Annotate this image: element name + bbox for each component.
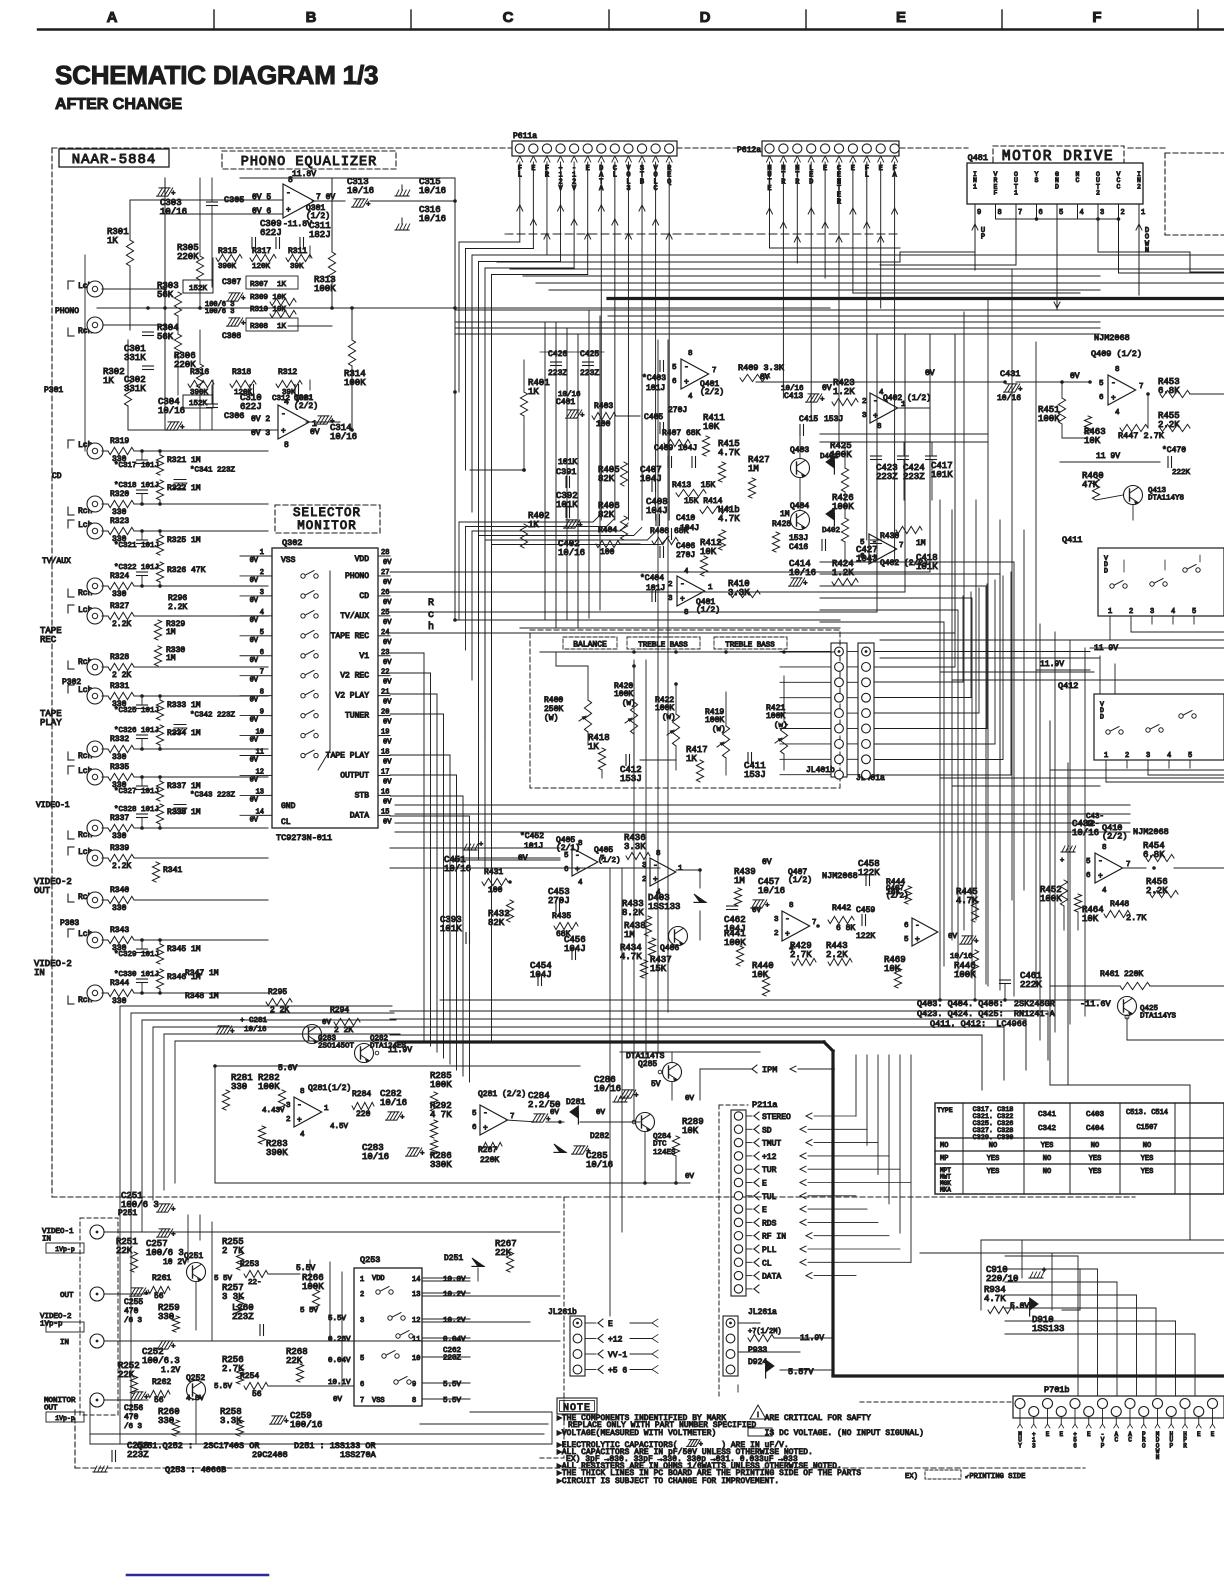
svg-text:VIDEO-1: VIDEO-1 <box>36 801 70 810</box>
svg-text:1K: 1K <box>107 236 118 246</box>
svg-text:122K: 122K <box>856 932 875 941</box>
svg-text:C312 102J: C312 102J <box>272 395 313 403</box>
svg-text:0V: 0V <box>383 559 392 567</box>
svg-text:(1/2): (1/2) <box>598 857 621 865</box>
svg-text:0.04V: 0.04V <box>328 1357 351 1365</box>
svg-text:20: 20 <box>381 709 389 717</box>
svg-text:1M: 1M <box>916 539 926 548</box>
svg-text:0V: 0V <box>760 373 770 382</box>
svg-text:0V: 0V <box>250 597 259 605</box>
svg-text:-: - <box>575 852 580 861</box>
svg-text:152K: 152K <box>189 400 208 408</box>
svg-text:-: - <box>286 189 291 198</box>
svg-text:-11.8V: -11.8V <box>283 220 312 229</box>
svg-text:+: + <box>586 1148 590 1156</box>
svg-text:3: 3 <box>1150 608 1154 616</box>
svg-text:Q253 : 4066B: Q253 : 4066B <box>165 1465 226 1475</box>
svg-text:P611a: P611a <box>513 132 537 141</box>
pin E of P612a <box>878 156 881 162</box>
wire nest from JL401a <box>874 651 1090 653</box>
svg-text:R284: R284 <box>352 1090 371 1099</box>
svg-text:R343: R343 <box>110 926 129 935</box>
svg-text:P933: P933 <box>748 1346 767 1355</box>
pin 20 of Q302 <box>378 715 390 717</box>
svg-text:22: 22 <box>381 669 389 677</box>
pin TMUT of P211a <box>734 1138 742 1146</box>
svg-text:YES: YES <box>1089 1168 1102 1176</box>
svg-text:-: - <box>873 397 878 406</box>
pin TUL of P211a <box>734 1192 742 1200</box>
svg-text:11.9V: 11.9V <box>1040 660 1064 669</box>
svg-text:82K: 82K <box>598 474 615 484</box>
svg-text:R435: R435 <box>552 912 571 921</box>
svg-text:10/16: 10/16 <box>362 1152 389 1162</box>
wire 11.8V rail <box>240 177 455 179</box>
svg-text:56: 56 <box>154 1396 164 1405</box>
wire video-to-JL261 rails <box>470 1411 552 1413</box>
wire from P611a pin VOLC <box>653 219 656 225</box>
svg-text:DTA114YS: DTA114YS <box>1140 1012 1177 1020</box>
svg-text:JL261a: JL261a <box>748 1308 777 1317</box>
svg-text:5: 5 <box>904 936 909 944</box>
svg-text:R326 47K: R326 47K <box>167 566 206 575</box>
svg-text:9: 9 <box>412 1381 416 1389</box>
pin 11 of Q302 <box>260 755 272 757</box>
svg-text:10.0V: 10.0V <box>443 1276 466 1284</box>
pin E of P701b <box>1043 1399 1053 1409</box>
svg-text:0V: 0V <box>250 577 259 585</box>
svg-text:622J: 622J <box>240 402 262 412</box>
pin 5 of Q411 <box>1193 616 1195 624</box>
svg-text:1: 1 <box>360 1276 364 1284</box>
svg-text:5: 5 <box>564 852 569 860</box>
svg-text:10/16: 10/16 <box>330 432 357 442</box>
svg-text:2: 2 <box>1129 608 1133 616</box>
svg-text:4: 4 <box>1171 608 1175 616</box>
svg-text:+: + <box>180 424 184 432</box>
svg-text:104J: 104J <box>530 970 552 980</box>
pin 1 of Q411 <box>1109 616 1111 624</box>
pin 26 of Q302 <box>378 595 390 597</box>
wire from P611a pin REQ <box>666 233 669 239</box>
svg-text:153J: 153J <box>824 415 843 424</box>
wire from P611a pin -12V <box>571 219 574 225</box>
wire staircase to P701b <box>1005 1255 1078 1257</box>
pin MTR of P612a <box>780 156 783 162</box>
svg-text:0V: 0V <box>310 428 320 437</box>
pin 1 of Q302 <box>260 555 272 557</box>
pin STEREO of P211a <box>734 1112 742 1120</box>
svg-text:C307: C307 <box>222 278 241 287</box>
wire right vertical bundle <box>939 500 941 960</box>
svg-text:0V: 0V <box>383 798 392 806</box>
svg-text:R339: R339 <box>110 844 129 853</box>
svg-text:(2/2): (2/2) <box>1102 831 1128 841</box>
svg-text:3: 3 <box>1100 209 1104 217</box>
svg-text:2: 2 <box>862 398 867 406</box>
svg-text:1: 1 <box>324 1105 329 1113</box>
svg-text:R404: R404 <box>598 526 617 535</box>
wire right-mid rails <box>395 804 1130 806</box>
svg-text:C401: C401 <box>556 398 575 407</box>
svg-text:R309 10K: R309 10K <box>250 294 287 302</box>
wire thick trace vertical <box>831 1051 834 1375</box>
op-amp Q402 (2/2) <box>869 534 897 564</box>
svg-text:+: + <box>785 930 790 939</box>
svg-text:0V: 0V <box>250 757 259 765</box>
wire from Q302 pin at y=572 <box>390 571 930 573</box>
svg-text:DATA: DATA <box>762 1273 781 1282</box>
svg-text:C306: C306 <box>224 411 244 421</box>
diode D910 <box>1030 1298 1038 1310</box>
capacitor C461 <box>1000 979 1011 981</box>
svg-text:+: + <box>1042 1267 1046 1275</box>
svg-text:IPM: IPM <box>762 1065 777 1075</box>
svg-text:+: + <box>171 190 175 198</box>
pin 17 of Q302 <box>378 774 390 776</box>
svg-text:+12: +12 <box>762 1153 777 1162</box>
wire from P611a pin E <box>585 233 588 239</box>
transistor Q406 <box>669 927 688 946</box>
svg-text:4.7K: 4.7K <box>718 448 740 458</box>
svg-text:R295: R295 <box>268 988 287 997</box>
wire Q481 internal bus <box>996 218 1119 220</box>
svg-text:P251: P251 <box>118 1209 137 1218</box>
svg-text:10/16: 10/16 <box>380 1098 407 1108</box>
svg-text:N: N <box>1156 1454 1160 1461</box>
pin +56 of P701b <box>1070 1399 1080 1409</box>
svg-text:NO: NO <box>1143 1142 1151 1150</box>
pin 14 of Q302 <box>260 814 272 816</box>
pin RDS of P211a <box>734 1218 742 1226</box>
svg-text:101K: 101K <box>931 470 953 480</box>
svg-text:10: 10 <box>412 1355 420 1363</box>
svg-text:6: 6 <box>904 922 909 930</box>
svg-text:26: 26 <box>381 589 389 597</box>
pin 27 of Q302 <box>378 575 390 577</box>
wire from P612a pin MUTE <box>767 208 770 214</box>
wire bus thick printing-side trace <box>608 297 1224 300</box>
svg-text:R341: R341 <box>163 866 182 875</box>
svg-text:100K: 100K <box>724 938 746 948</box>
oval DC voltage symbol <box>748 1428 772 1436</box>
pin +12 of P211a <box>734 1152 742 1160</box>
svg-text:NO: NO <box>1043 1168 1051 1176</box>
svg-text:270J: 270J <box>548 896 570 906</box>
pin SD of P211a <box>734 1125 742 1133</box>
svg-text:+: + <box>241 295 245 303</box>
svg-text:R325 1M: R325 1M <box>167 536 201 545</box>
blue marker line <box>127 1574 268 1577</box>
pin VOLC of P611a <box>653 156 656 162</box>
svg-text:101K: 101K <box>440 924 462 934</box>
svg-text:RF IN: RF IN <box>762 1233 786 1242</box>
svg-text:0V: 0V <box>383 739 392 747</box>
pin E of P701b <box>1084 1407 1094 1417</box>
pin 2 of Q411 <box>1130 616 1132 624</box>
svg-text:1: 1 <box>1108 608 1112 616</box>
svg-text:5: 5 <box>472 1110 477 1118</box>
svg-text:0V: 0V <box>518 854 528 863</box>
svg-text:NO: NO <box>1043 1155 1051 1163</box>
wire cd group feeds <box>268 450 272 452</box>
svg-text:223Z: 223Z <box>580 369 599 378</box>
svg-text:+: + <box>653 876 658 885</box>
pin VOL3 of P611a <box>625 156 628 162</box>
svg-text:470: 470 <box>124 1413 139 1422</box>
svg-text:▶VOLTAGE(MEASURED WITH VOLTMET: ▶VOLTAGE(MEASURED WITH VOLTMETER) IS DC … <box>557 1430 924 1438</box>
svg-text:(W): (W) <box>544 714 558 723</box>
svg-text:C341: C341 <box>1038 1111 1057 1119</box>
svg-text:/6 3: /6 3 <box>124 1317 143 1325</box>
pin 3 of Q302 <box>260 595 272 597</box>
svg-text:+: + <box>284 1418 288 1426</box>
svg-text:R331: R331 <box>110 682 129 691</box>
svg-text:-: - <box>1111 379 1116 388</box>
svg-text:1K: 1K <box>528 387 539 397</box>
svg-text:8: 8 <box>288 176 293 185</box>
wire bus h5 <box>523 275 1100 277</box>
label SELECTOR MONITOR <box>275 505 380 533</box>
svg-text:10/16: 10/16 <box>586 1160 613 1170</box>
svg-text:D282: D282 <box>590 1132 609 1141</box>
svg-text:R448: R448 <box>1110 900 1129 909</box>
svg-text:1: 1 <box>1141 209 1145 217</box>
svg-text:P612a: P612a <box>737 146 761 155</box>
svg-text:B: B <box>306 9 317 26</box>
svg-text:R335: R335 <box>110 763 129 772</box>
svg-text:+: + <box>546 1116 550 1124</box>
wire thick trace corner <box>824 1042 833 1051</box>
pin 24 of Q302 <box>378 635 390 637</box>
svg-text:5: 5 <box>1086 858 1091 866</box>
wire bus h3 <box>497 261 900 263</box>
switches in Q412 <box>1106 730 1110 734</box>
svg-text:5: 5 <box>360 1355 364 1363</box>
svg-text:C415: C415 <box>799 415 818 424</box>
svg-text:19: 19 <box>381 729 389 737</box>
svg-text:-: - <box>915 922 920 931</box>
wire from Q302 pin at y=633 <box>390 632 955 634</box>
transistor Q283 <box>303 1025 322 1044</box>
svg-text:56: 56 <box>154 1292 164 1301</box>
pin 3 of Q412 <box>1147 760 1149 768</box>
svg-text:17: 17 <box>381 768 389 776</box>
svg-text:-: - <box>483 1109 488 1118</box>
svg-text:4.5V: 4.5V <box>330 1123 349 1131</box>
dashed box right edge <box>1164 153 1166 235</box>
svg-text:SD: SD <box>762 1126 772 1135</box>
svg-text:3: 3 <box>668 595 673 603</box>
svg-text:0V: 0V <box>383 699 392 707</box>
svg-text:330: 330 <box>112 997 127 1006</box>
svg-text:+: + <box>230 1028 234 1036</box>
pin DATA of P611a <box>598 156 601 162</box>
svg-text:R: R <box>428 598 434 609</box>
svg-text:IN: IN <box>60 1339 69 1347</box>
svg-text:R312: R312 <box>278 368 297 377</box>
svg-text:6 8K: 6 8K <box>836 924 855 933</box>
svg-text:(2/2): (2/2) <box>886 892 909 900</box>
svg-text:56: 56 <box>252 1390 262 1399</box>
svg-text:C416: C416 <box>789 543 808 552</box>
label PHONO EQUALIZER <box>222 151 396 169</box>
svg-text:5.5V: 5.5V <box>443 1381 462 1389</box>
svg-text:330: 330 <box>158 1416 174 1426</box>
wire Q403 links <box>799 430 801 458</box>
svg-text:h: h <box>428 621 434 633</box>
pin MDOWN of P701b <box>1153 1399 1163 1409</box>
svg-text:P211a: P211a <box>752 1100 778 1110</box>
capacitor C257 <box>158 1229 163 1237</box>
svg-text:10/16: 10/16 <box>758 886 785 896</box>
connector TAPE REC Lch <box>68 604 74 606</box>
svg-text:PHONO: PHONO <box>55 307 79 316</box>
wire bus h2 <box>483 254 1224 256</box>
svg-text:E: E <box>1087 1431 1091 1438</box>
svg-text:+: + <box>915 936 920 945</box>
svg-text:+12: +12 <box>608 1336 623 1345</box>
dashed frame top <box>52 147 512 149</box>
wire vertical bundle center <box>544 322 546 620</box>
svg-text:10/16: 10/16 <box>158 406 185 416</box>
pin FL of P611a <box>517 156 520 162</box>
svg-text:1SS133: 1SS133 <box>1032 1324 1064 1334</box>
svg-text:BALANCE: BALANCE <box>573 641 607 650</box>
svg-text:22K: 22K <box>118 1370 135 1380</box>
svg-text:Q405: Q405 <box>594 846 613 855</box>
pin -VP of P701b <box>1098 1399 1108 1409</box>
svg-text:2: 2 <box>774 930 779 938</box>
svg-text:VDD: VDD <box>355 555 370 564</box>
border frame <box>38 28 1224 30</box>
svg-text:!: ! <box>756 1412 760 1420</box>
svg-text:+: + <box>1111 394 1116 403</box>
svg-text:10/16: 10/16 <box>997 394 1021 403</box>
svg-text:*C341 223Z: *C341 223Z <box>190 467 236 475</box>
svg-text:100K: 100K <box>314 284 336 294</box>
svg-text:220K: 220K <box>177 252 199 262</box>
svg-text:6: 6 <box>1039 209 1043 217</box>
svg-text:+: + <box>420 1150 424 1158</box>
svg-text:5: 5 <box>1192 608 1196 616</box>
svg-text:S: S <box>1035 177 1039 184</box>
svg-text:R310 10K: R310 10K <box>250 306 287 314</box>
svg-text:331K: 331K <box>124 384 146 394</box>
svg-text:0V: 0V <box>752 907 762 915</box>
pin +12V of P611a <box>558 156 561 162</box>
svg-text:SCHEMATIC DIAGRAM 1/3: SCHEMATIC DIAGRAM 1/3 <box>55 60 378 90</box>
svg-text:5.5V: 5.5V <box>443 1397 462 1405</box>
wire bus h10 <box>455 327 1100 329</box>
svg-text:R254: R254 <box>240 1372 259 1381</box>
pin 4 of Q412 <box>1168 760 1170 768</box>
svg-text:*C343 223Z: *C343 223Z <box>190 792 236 800</box>
capacitor C402 <box>565 520 570 528</box>
svg-text:D402: D402 <box>822 527 840 535</box>
wire motor out1 <box>1015 219 1017 265</box>
svg-text:+ C281: + C281 <box>240 1017 268 1025</box>
wire Q410 wiring <box>1050 862 1095 864</box>
svg-text:4: 4 <box>1080 209 1084 217</box>
svg-text:C404: C404 <box>1086 1125 1105 1133</box>
svg-text:TV/AUX: TV/AUX <box>340 612 369 621</box>
svg-text:R413 15K: R413 15K <box>672 481 715 490</box>
wire from P611a pin CL <box>612 219 615 225</box>
svg-text:Y: Y <box>1018 1442 1022 1449</box>
svg-text:10K: 10K <box>1084 436 1101 446</box>
svg-text:+5 6: +5 6 <box>608 1367 627 1376</box>
svg-text:D281: D281 <box>566 1098 585 1107</box>
svg-text:8: 8 <box>1102 844 1107 852</box>
wire from P612a pin E <box>878 236 881 242</box>
svg-text:0V: 0V <box>383 639 392 647</box>
svg-text:0V: 0V <box>925 369 935 378</box>
wire from P611a pin DATA <box>598 205 601 211</box>
pin 28 of Q302 <box>378 555 390 557</box>
svg-text:10/16: 10/16 <box>347 186 374 196</box>
svg-text:AFTER CHANGE: AFTER CHANGE <box>55 96 182 113</box>
svg-text:8: 8 <box>789 902 794 910</box>
svg-text:330: 330 <box>112 904 127 913</box>
svg-text:CL: CL <box>762 1259 772 1268</box>
svg-text:+: + <box>297 1116 302 1125</box>
svg-text:1Vp-p: 1Vp-p <box>40 1320 63 1328</box>
wire verticals feeding Q411/Q412 <box>1039 624 1041 1040</box>
svg-text:Q252: Q252 <box>186 1374 205 1383</box>
svg-text:CD: CD <box>52 472 62 481</box>
svg-text:V2 PLAY: V2 PLAY <box>335 692 369 701</box>
svg-text:TMUT: TMUT <box>762 1140 781 1149</box>
svg-text:R262: R262 <box>152 1378 171 1387</box>
svg-text:5 5V: 5 5V <box>214 1275 233 1283</box>
svg-text:21: 21 <box>381 689 389 697</box>
svg-text:6: 6 <box>1099 394 1104 402</box>
svg-text:R461 220K: R461 220K <box>1100 970 1143 979</box>
pin MUTE of P612a <box>767 156 770 162</box>
pin E of P211a <box>734 1178 742 1186</box>
svg-text:A: A <box>107 9 118 26</box>
wire from P612a pin LED <box>808 208 811 214</box>
svg-text:2.2K: 2.2K <box>168 603 187 612</box>
wire bus h9 <box>455 321 1100 323</box>
wire video lower <box>104 1340 560 1342</box>
svg-text:0V: 0V <box>250 637 259 645</box>
svg-text:Q411. Q412: LC4966: Q411. Q412: LC4966 <box>930 1019 1027 1029</box>
svg-text:8: 8 <box>877 423 882 431</box>
svg-text:C413: C413 <box>784 392 803 401</box>
capacitor C423 <box>871 455 882 457</box>
svg-text:22K: 22K <box>495 1248 512 1258</box>
svg-text:EX): EX) <box>905 1473 918 1481</box>
op-amp Q402 (1/2) <box>870 393 898 423</box>
svg-text:+: + <box>1060 857 1064 865</box>
svg-text:0V: 0V <box>383 759 392 767</box>
svg-text:4: 4 <box>578 879 583 887</box>
svg-text:+: + <box>873 412 878 421</box>
svg-text:R430: R430 <box>880 532 899 541</box>
svg-text:1K: 1K <box>103 376 114 386</box>
pin 4 of Q411 <box>1172 616 1174 624</box>
resistor 152K feedback upper <box>183 280 213 293</box>
svg-text:D: D <box>700 9 711 26</box>
ground near C432 <box>1061 851 1075 853</box>
svg-text:R315: R315 <box>218 247 237 256</box>
pin 3 of Q411 <box>1151 616 1153 624</box>
svg-text:0V: 0V <box>383 719 392 727</box>
svg-text:0V: 0V <box>383 679 392 687</box>
svg-text:E: E <box>1197 1431 1201 1438</box>
